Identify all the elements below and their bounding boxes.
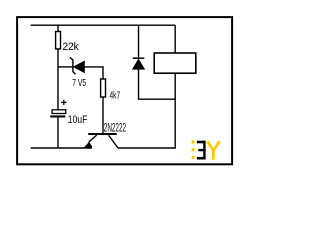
- wire collector net: [118, 73, 175, 148]
- border frame: [17, 17, 232, 164]
- svg-text:22k: 22k: [63, 41, 80, 53]
- zener diode D1 7V5: [70, 57, 86, 89]
- wire 22k top lead: [57, 25, 59, 31]
- svg-text:7 V5: 7 V5: [72, 77, 86, 89]
- diode D2 freewheel: [132, 58, 145, 69]
- transistor Q1 2N2222: [84, 120, 126, 148]
- svg-text:10uF: 10uF: [68, 114, 88, 126]
- wire zener to 4k7: [85, 67, 104, 79]
- relay coil K1: [154, 53, 196, 73]
- logo dots: [192, 140, 195, 159]
- wire zener anode lead: [58, 66, 73, 68]
- wire left rail below 22k: [57, 49, 59, 110]
- wire top rail: [31, 24, 176, 26]
- wire cap bottom to bottom rail: [57, 117, 59, 148]
- wire 4k7 to base: [102, 97, 104, 134]
- wire relay top lead: [174, 25, 176, 53]
- wire diode anode to collector net: [139, 70, 176, 100]
- resistor R1 22k: [56, 32, 61, 49]
- svg-text:4k7: 4k7: [110, 90, 121, 101]
- logo backwards E: [197, 141, 206, 160]
- logo Y: [207, 141, 219, 159]
- wire bottom left (emitter net): [31, 147, 92, 149]
- capacitor C1 10uF: [50, 110, 87, 126]
- wire diode branch vertical: [138, 25, 140, 58]
- capacitor C1 10uF plus sign: [61, 100, 66, 105]
- resistor R2 4k7: [101, 79, 106, 97]
- svg-text:2N2222: 2N2222: [104, 120, 126, 134]
